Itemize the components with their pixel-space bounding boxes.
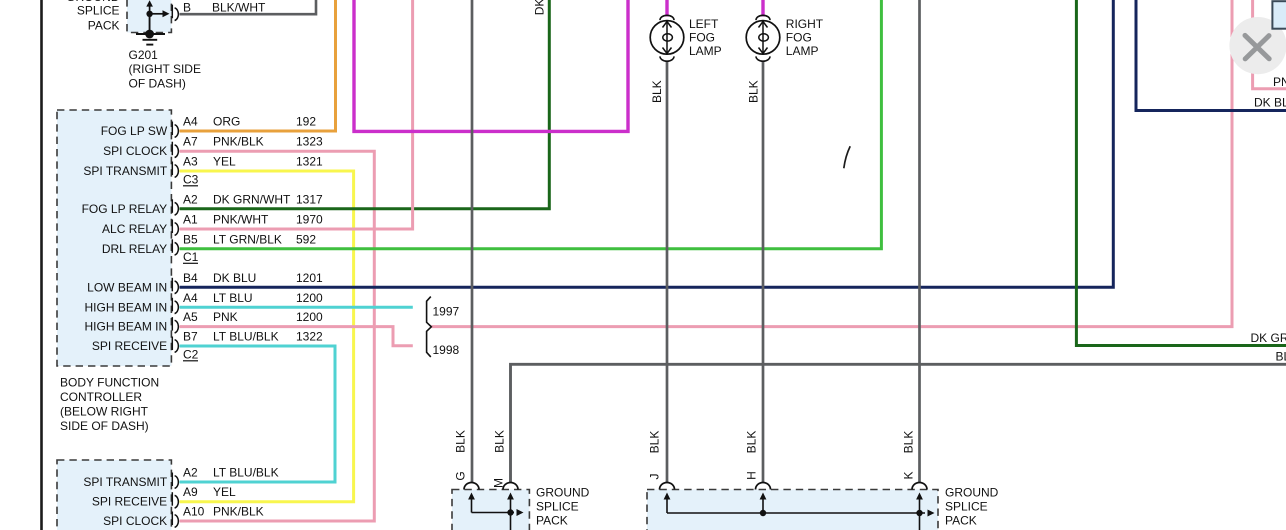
svg-text:PACK: PACK	[88, 18, 120, 32]
svg-text:B5: B5	[183, 232, 198, 246]
svg-text:FOG LP RELAY: FOG LP RELAY	[82, 202, 168, 216]
svg-text:C1: C1	[183, 250, 199, 264]
svg-text:1200: 1200	[296, 310, 323, 324]
pin B connector	[171, 5, 173, 19]
wire DK GRN right side	[1076, 0, 1286, 346]
svg-text:LOW BEAM IN: LOW BEAM IN	[87, 280, 167, 294]
pin J arc	[660, 483, 675, 490]
svg-text:LT BLU/BLK: LT BLU/BLK	[213, 466, 279, 480]
svg-text:YEL: YEL	[213, 155, 236, 169]
BFC2 pin A10 (SPI CLOCK) connector	[171, 512, 173, 526]
wire BLK right vertical (K)	[918, 0, 921, 482]
svg-text:SPI TRANSMIT: SPI TRANSMIT	[83, 164, 167, 178]
svg-text:SPLICE: SPLICE	[945, 500, 988, 514]
svg-text:1970: 1970	[296, 213, 323, 227]
left border line	[40, 0, 43, 530]
pin M up arrow	[510, 497, 512, 513]
svg-text:BLK: BLK	[648, 431, 662, 454]
wire PNK right side	[1253, 0, 1286, 89]
wire DK GRN/WHT 1317	[180, 0, 550, 209]
svg-text:SPI RECEIVE: SPI RECEIVE	[92, 495, 167, 509]
BFC pin A5 (HIGH BEAM IN) connector	[171, 317, 173, 331]
BFC pin A7 (SPI CLOCK) connector	[171, 142, 173, 156]
close button circle	[1229, 17, 1286, 74]
pin G up arrow	[471, 497, 473, 513]
ground splice pack (right) box	[647, 490, 938, 530]
svg-text:SPI TRANSMIT: SPI TRANSMIT	[83, 475, 167, 489]
svg-text:YEL: YEL	[213, 485, 236, 499]
svg-text:A9: A9	[183, 485, 198, 499]
svg-text:LT GRN/BLK: LT GRN/BLK	[213, 232, 282, 246]
wire LT GRN/BLK 592	[180, 0, 882, 249]
left fog lamp symbol	[660, 15, 674, 20]
wire DK BLU right side	[1136, 0, 1286, 111]
svg-text:1998: 1998	[433, 343, 460, 357]
body function controller box (upper)	[57, 110, 171, 366]
pin H up arrow	[762, 497, 764, 513]
svg-text:SPLICE: SPLICE	[77, 3, 120, 17]
pin G arc	[464, 483, 479, 490]
svg-text:CONTROLLER: CONTROLLER	[60, 390, 142, 404]
splice wire with up arrow	[149, 6, 151, 35]
svg-text:OF DASH): OF DASH)	[129, 76, 186, 90]
svg-text:A3: A3	[183, 155, 198, 169]
ground splice pack (top) box	[127, 0, 171, 33]
wire magenta to right fog lamp	[761, 0, 764, 17]
svg-text:A2: A2	[183, 192, 198, 206]
svg-text:G: G	[454, 471, 468, 480]
wire LT BLU 1200	[180, 306, 413, 309]
svg-text:SPI CLOCK: SPI CLOCK	[103, 514, 167, 528]
svg-text:HIGH BEAM IN: HIGH BEAM IN	[85, 300, 168, 314]
wire YEL 1321	[180, 171, 354, 502]
ground splice pack (left) box	[452, 490, 529, 530]
wire PNK 1200 (to 1998 jog)	[180, 327, 413, 346]
svg-text:DK BLU: DK BLU	[1254, 96, 1286, 110]
svg-text:B7: B7	[183, 330, 198, 344]
svg-text:HIGH BEAM IN: HIGH BEAM IN	[85, 320, 168, 334]
svg-text:J: J	[648, 474, 662, 480]
BFC2 pin A9 (SPI RECEIVE) connector	[171, 492, 173, 506]
svg-text:DK GRN: DK GRN	[1251, 331, 1286, 345]
wire PNK 1200 (right of brace)	[431, 0, 1232, 327]
svg-text:DK GRN/WHT: DK GRN/WHT	[533, 0, 547, 15]
svg-text:LT BLU/BLK: LT BLU/BLK	[213, 330, 279, 344]
svg-text:A4: A4	[183, 115, 198, 129]
svg-text:ORG: ORG	[213, 115, 240, 129]
svg-text:FOG LP SW: FOG LP SW	[101, 124, 168, 138]
BFC2 pin A2 (SPI TRANSMIT) connector	[171, 473, 173, 487]
BFC pin A4 (HIGH BEAM IN) connector	[171, 298, 173, 312]
right pack splice rail	[667, 512, 925, 514]
BFC pin B4 (LOW BEAM IN) connector	[171, 278, 173, 292]
wire PNK/BLK 1323	[180, 151, 375, 521]
svg-text:1322: 1322	[296, 330, 323, 344]
svg-text:BODY FUNCTION: BODY FUNCTION	[60, 376, 159, 390]
BFC pin A2 (FOG LP RELAY) connector	[171, 199, 173, 213]
pin J up arrow	[666, 497, 668, 513]
svg-text:A1: A1	[183, 213, 198, 227]
svg-text:B4: B4	[183, 271, 198, 285]
wire DK BLU 1201	[180, 0, 1114, 287]
wire PNK/WHT 1970	[180, 0, 413, 229]
svg-text:1201: 1201	[296, 271, 323, 285]
svg-text:PACK: PACK	[536, 514, 568, 528]
svg-text:RIGHT: RIGHT	[786, 17, 824, 31]
svg-text:SPLICE: SPLICE	[536, 500, 579, 514]
svg-text:BLK: BLK	[454, 430, 468, 453]
wire BLK left fog lamp	[666, 61, 669, 483]
svg-text:G201: G201	[129, 48, 159, 62]
component box fragment (top right)	[1272, 1, 1286, 29]
wire BLK horizontal to M	[511, 364, 1286, 482]
svg-text:1321: 1321	[296, 155, 323, 169]
svg-text:K: K	[902, 471, 916, 479]
svg-text:A5: A5	[183, 310, 198, 324]
svg-text:1997: 1997	[433, 305, 460, 319]
svg-text:PNK/BLK: PNK/BLK	[213, 135, 264, 149]
svg-text:BLK: BLK	[493, 430, 507, 453]
svg-text:M: M	[492, 478, 506, 488]
svg-text:ALC RELAY: ALC RELAY	[102, 222, 167, 236]
svg-text:DK GRN/WHT: DK GRN/WHT	[213, 192, 291, 206]
svg-text:PNK: PNK	[213, 310, 238, 324]
svg-text:H: H	[745, 471, 759, 480]
svg-text:PACK: PACK	[945, 514, 977, 528]
splice arrow to pin B	[150, 13, 165, 15]
svg-text:FOG: FOG	[689, 30, 715, 44]
svg-text:GROUND: GROUND	[536, 486, 590, 500]
svg-text:GROUND: GROUND	[945, 486, 999, 500]
svg-text:LAMP: LAMP	[786, 44, 819, 58]
svg-text:A10: A10	[183, 505, 205, 519]
svg-text:LEFT: LEFT	[689, 17, 719, 31]
svg-text:C3: C3	[183, 173, 199, 187]
wire BLK/WHT from pin B	[180, 0, 317, 14]
wire magenta loop	[354, 0, 628, 131]
svg-text:A7: A7	[183, 135, 198, 149]
svg-text:DK BLU: DK BLU	[213, 271, 256, 285]
wire BLK left vertical (G)	[471, 0, 474, 482]
svg-text:A4: A4	[183, 291, 198, 305]
body function controller box (lower)	[57, 460, 171, 530]
svg-text:A2: A2	[183, 466, 198, 480]
BFC pin B5 (DRL RELAY) connector	[171, 239, 173, 253]
wire ORG 192	[180, 0, 336, 131]
BFC pin A1 (ALC RELAY) connector	[171, 220, 173, 234]
left pack splice rail	[472, 512, 515, 514]
BFC pin B7 (SPI RECEIVE) connector	[171, 337, 173, 351]
svg-text:FOG: FOG	[786, 30, 812, 44]
svg-text:1323: 1323	[296, 135, 323, 149]
svg-text:LT BLU: LT BLU	[213, 291, 253, 305]
svg-text:PNK: PNK	[1273, 75, 1286, 89]
wire BLK right fog lamp	[762, 61, 765, 483]
ground G201 symbol	[149, 14, 151, 34]
svg-text:B: B	[183, 1, 191, 15]
svg-text:DRL RELAY: DRL RELAY	[102, 242, 167, 256]
svg-text:BLK: BLK	[902, 431, 916, 454]
stray slash mark	[844, 146, 850, 168]
wire magenta to left fog lamp	[665, 0, 668, 17]
svg-text:(BELOW RIGHT: (BELOW RIGHT	[60, 405, 149, 419]
svg-text:BLK: BLK	[1276, 350, 1286, 364]
svg-text:SPI RECEIVE: SPI RECEIVE	[92, 339, 167, 353]
close button X	[1245, 35, 1269, 58]
svg-text:(RIGHT SIDE: (RIGHT SIDE	[129, 62, 201, 76]
pin K arc	[912, 483, 927, 490]
splice junction dot	[146, 11, 152, 17]
svg-text:BLK: BLK	[747, 80, 761, 103]
svg-text:PNK/BLK: PNK/BLK	[213, 505, 264, 519]
wire LT BLU/BLK 1322	[180, 346, 336, 482]
right fog lamp symbol	[756, 15, 770, 20]
svg-text:C2: C2	[183, 348, 199, 362]
svg-text:192: 192	[296, 115, 316, 129]
svg-text:BLK: BLK	[745, 431, 759, 454]
svg-text:BLK: BLK	[650, 80, 664, 103]
BFC pin A3 (SPI TRANSMIT) connector	[171, 162, 173, 176]
pin K up arrow	[919, 497, 921, 513]
svg-text:SIDE OF DASH): SIDE OF DASH)	[60, 419, 149, 433]
svg-text:1317: 1317	[296, 192, 323, 206]
brace 1997/1998	[427, 297, 432, 357]
svg-text:SPI CLOCK: SPI CLOCK	[103, 144, 167, 158]
BFC pin A4 (FOG LP SW) connector	[171, 122, 173, 136]
svg-text:LAMP: LAMP	[689, 44, 722, 58]
svg-text:592: 592	[296, 232, 316, 246]
svg-text:1200: 1200	[296, 291, 323, 305]
pin M arc	[503, 483, 518, 490]
pin H arc	[756, 483, 771, 490]
svg-text:BLK/WHT: BLK/WHT	[212, 1, 266, 15]
svg-text:PNK/WHT: PNK/WHT	[213, 213, 269, 227]
